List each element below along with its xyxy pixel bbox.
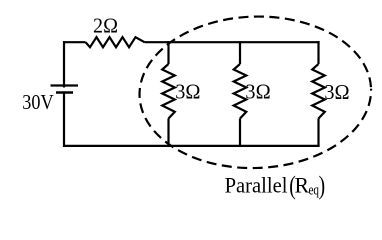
wire branch 2 upper <box>239 41 241 64</box>
wire left branch upper <box>63 41 65 87</box>
wire branch 3 lower <box>317 119 319 148</box>
svg-text:3Ω: 3Ω <box>175 81 200 103</box>
wire top rail right segment <box>145 41 320 43</box>
resistor R2 3ohm (vertical zigzag) <box>234 64 247 119</box>
svg-text:Parallel: Parallel <box>225 173 288 198</box>
battery V1 short plate <box>56 91 73 94</box>
resistor R3 3ohm (vertical zigzag) <box>312 64 325 119</box>
resistor R1 3ohm (vertical zigzag) <box>162 64 175 119</box>
svg-text:30V: 30V <box>22 91 53 115</box>
wire branch 1 upper <box>167 41 169 64</box>
dashed ellipse around parallel group <box>137 13 373 172</box>
resistor R 2ohm (horizontal zigzag) <box>86 37 145 47</box>
wire bottom rail <box>63 145 320 147</box>
svg-text:): ) <box>319 172 325 200</box>
wire branch 3 upper <box>317 41 319 64</box>
svg-text:R: R <box>295 172 310 197</box>
svg-text:3Ω: 3Ω <box>324 82 349 104</box>
svg-text:2Ω: 2Ω <box>93 15 118 38</box>
wire top rail left segment <box>63 41 86 43</box>
wire branch 1 lower <box>167 119 169 148</box>
wire branch 2 lower <box>239 119 241 148</box>
battery V1 long plate <box>51 84 79 86</box>
svg-text:eq: eq <box>308 181 319 198</box>
svg-text:3Ω: 3Ω <box>245 81 270 103</box>
wire left branch lower <box>63 93 65 148</box>
